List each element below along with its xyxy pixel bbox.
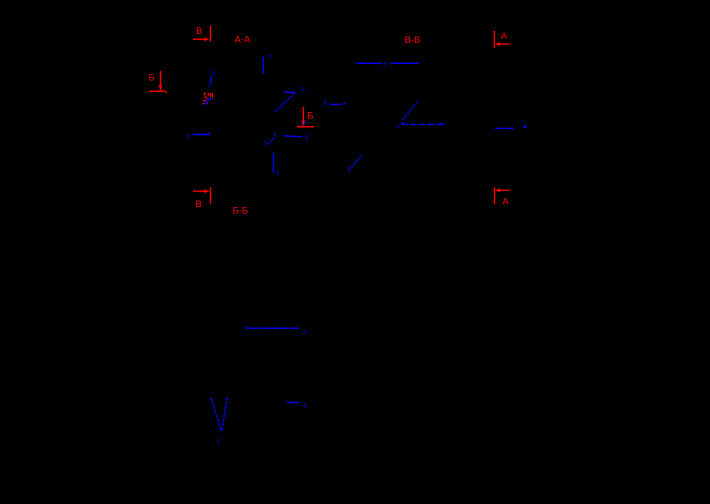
svg-text:В-В: В-В — [405, 35, 421, 46]
svg-text:Б: Б — [307, 111, 313, 122]
svg-text:В: В — [196, 199, 202, 210]
svg-text:А: А — [502, 197, 509, 208]
svg-text:А: А — [501, 31, 508, 42]
svg-text:70: 70 — [267, 55, 273, 61]
svg-text:4: 4 — [397, 125, 400, 131]
svg-text:А-А: А-А — [235, 35, 252, 46]
svg-text:8: 8 — [383, 62, 386, 68]
svg-text:В: В — [196, 26, 202, 37]
svg-text:Б-Б: Б-Б — [233, 206, 249, 217]
svg-text:Б: Б — [149, 73, 155, 84]
